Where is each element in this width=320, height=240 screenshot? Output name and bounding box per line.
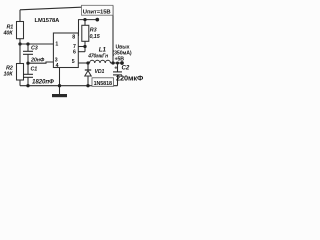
svg-text:1820пФ: 1820пФ — [32, 79, 54, 86]
op-amp U1 LM1578A body — [53, 33, 78, 68]
capacitor C1 top lead — [27, 63, 29, 74]
capacitor C3 top lead — [27, 44, 29, 51]
svg-text:C3: C3 — [31, 46, 38, 52]
svg-text:R3: R3 — [90, 28, 97, 34]
junction dot R3 pin7 — [83, 45, 86, 48]
svg-text:10К: 10К — [4, 71, 14, 77]
svg-text:+5В: +5В — [115, 56, 125, 62]
svg-text:4: 4 — [56, 63, 59, 69]
junction dot output C2 — [116, 61, 119, 64]
svg-text:6: 6 — [73, 49, 76, 55]
svg-text:C1: C1 — [31, 66, 38, 72]
svg-text:1N5818: 1N5818 — [94, 81, 112, 87]
svg-text:20нФ: 20нФ — [30, 57, 45, 63]
inductor L1 — [90, 60, 111, 63]
wire R3 bottom to pin 7 junction — [84, 41, 86, 51]
svg-text:VD1: VD1 — [95, 69, 105, 75]
ground — [59, 86, 61, 94]
wire R1 top — [19, 10, 21, 22]
svg-text:Uпит=15В: Uпит=15В — [83, 10, 111, 16]
diode VD1 — [85, 69, 91, 71]
capacitor C2 top lead — [117, 63, 119, 72]
capacitor C2 bottom lead to ground bus — [117, 75, 119, 86]
capacitor C2 — [113, 71, 122, 73]
capacitor C3 — [23, 50, 33, 52]
diode VD1 anode lead to ground bus — [87, 76, 89, 86]
junction dot switch node VD1 — [86, 61, 89, 64]
junction dot output feedback — [111, 61, 114, 64]
svg-text:40К: 40К — [3, 30, 14, 36]
junction dot pin4 ground — [58, 84, 61, 87]
wire node B to IC pin 3 — [28, 62, 53, 63]
capacitor C3 bottom lead — [27, 54, 29, 63]
svg-text:0,15: 0,15 — [90, 34, 101, 40]
node Uvin label box — [82, 5, 114, 15]
wire L1 to output node — [111, 62, 123, 64]
svg-text:1: 1 — [55, 41, 58, 47]
junction dot R2 ground — [26, 84, 29, 87]
terminal output — [120, 61, 124, 65]
resistor R1 — [17, 22, 24, 39]
wire feedback top rail from output to R1 — [20, 6, 113, 10]
wire R3 top lead — [84, 20, 86, 26]
node A junction dot left — [18, 42, 21, 45]
wire IC pin 7 stub — [78, 46, 85, 48]
svg-text:C2: C2 — [122, 65, 130, 72]
wire IC pin 4 to ground bus — [59, 68, 61, 86]
part number box 1N5818 — [92, 78, 114, 87]
svg-text:8: 8 — [72, 34, 75, 40]
svg-text:L1: L1 — [99, 47, 107, 54]
node A junction dot C3 — [26, 42, 29, 45]
resistor R3 — [82, 25, 89, 41]
svg-text:Uвых: Uвых — [116, 44, 130, 50]
wire ground bus — [20, 85, 118, 87]
wire node A to IC pin 1 — [20, 43, 53, 45]
capacitor C1 bottom lead — [27, 77, 29, 85]
wire R1 bottom to node A — [19, 39, 21, 44]
node B junction dot — [26, 62, 29, 65]
wire node A down to R2 — [19, 44, 21, 64]
wire feedback vertical drop to output node — [112, 6, 114, 63]
svg-text:220мкФ: 220мкФ — [116, 74, 144, 83]
svg-text:5: 5 — [72, 59, 75, 65]
terminal Vin — [95, 18, 99, 22]
capacitor C1 — [23, 73, 33, 75]
wire IC pin 6 stub — [78, 51, 85, 53]
junction dot R3 Vin — [83, 18, 86, 21]
svg-text:470мкГн: 470мкГн — [87, 54, 108, 60]
wire IC pin 5 to switch node — [78, 62, 89, 64]
wire Vin rail to IC pin 8 — [79, 20, 98, 36]
junction dot VD1 ground — [86, 84, 89, 87]
diode VD1 cathode lead — [87, 63, 89, 70]
wire R2 bottom to ground bus — [19, 80, 21, 86]
resistor R2 — [17, 64, 24, 81]
svg-text:LM1578A: LM1578A — [35, 18, 61, 24]
